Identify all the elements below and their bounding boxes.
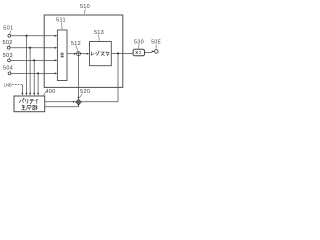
svg-text:502: 502	[3, 40, 13, 46]
svg-text:530: 530	[134, 39, 144, 45]
svg-text:50E: 50E	[151, 40, 161, 46]
svg-text:510: 510	[80, 4, 90, 10]
svg-text:2: 2	[139, 50, 142, 55]
svg-text:513: 513	[94, 30, 104, 36]
svg-text:504: 504	[3, 66, 13, 72]
svg-text:LNB: LNB	[4, 82, 12, 87]
svg-text:501: 501	[3, 26, 13, 32]
svg-text:512: 512	[71, 41, 81, 47]
svg-text:400: 400	[46, 89, 56, 95]
svg-text:511: 511	[56, 17, 66, 23]
svg-text:520: 520	[80, 89, 90, 95]
svg-text:503: 503	[3, 53, 13, 59]
